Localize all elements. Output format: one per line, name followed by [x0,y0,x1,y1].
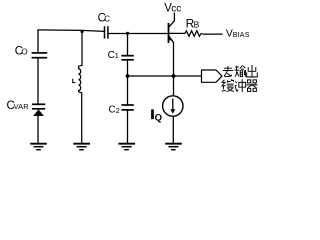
冲 [235,79,246,92]
wire Co to Cvar [37,58,39,104]
svg-text:BIAS: BIAS [233,32,250,39]
node dot (emitter junction) [172,74,176,78]
wire RB to Vbias [203,33,223,35]
varactor diode CVAR [32,104,45,116]
wire C1 to C2 through node [127,60,129,105]
wire down to C1 [127,34,129,56]
wire Vcc stub [173,13,175,21]
node dot (C1/C2/output) [126,74,130,78]
ground (under inductor) [73,144,90,150]
svg-text:B: B [194,20,200,30]
capacitor C2 [121,105,133,110]
current source IQ [163,96,183,116]
ground (under C2) [118,144,135,150]
inductor L label [73,79,76,83]
capacitor CC [105,26,108,38]
capacitor C0 [32,53,48,58]
text 缓冲器 (buffer) line 2 [222,79,258,92]
缓 [222,79,234,91]
svg-text:Q: Q [155,112,162,123]
出 [247,65,258,77]
text 去输出 (to output) line 1 [223,65,258,77]
svg-text:C: C [108,50,115,61]
wire Cvar to ground [37,116,39,143]
wire emitter down [173,43,175,96]
wire left branch down to Co [37,30,39,53]
node junction at inductor top [81,30,84,33]
transistor Q1 [168,21,174,43]
svg-text:2: 2 [116,106,120,115]
wire top rail [37,30,104,32]
器 [247,80,258,92]
current source IQ label [151,109,154,119]
wire IQ to ground [172,116,174,143]
wire C2 to ground [127,110,129,143]
inductor L [79,31,82,144]
svg-text:O: O [21,48,27,57]
output tag (to output buffer) [202,70,223,82]
capacitor C1 [121,56,133,60]
svg-text:C: C [104,14,110,23]
svg-text:VAR: VAR [14,102,29,111]
resistor RB [169,31,204,37]
node C1 top junction [126,32,129,35]
wire output node [128,75,202,77]
svg-text:C: C [109,105,116,116]
去 [223,66,234,77]
wire Cc to transistor base [108,33,168,35]
svg-text:1: 1 [115,51,119,60]
输 [235,66,246,77]
ground (under IQ) [165,144,182,150]
ground (left, under CVAR) [30,144,47,150]
svg-text:cc: cc [171,4,181,15]
